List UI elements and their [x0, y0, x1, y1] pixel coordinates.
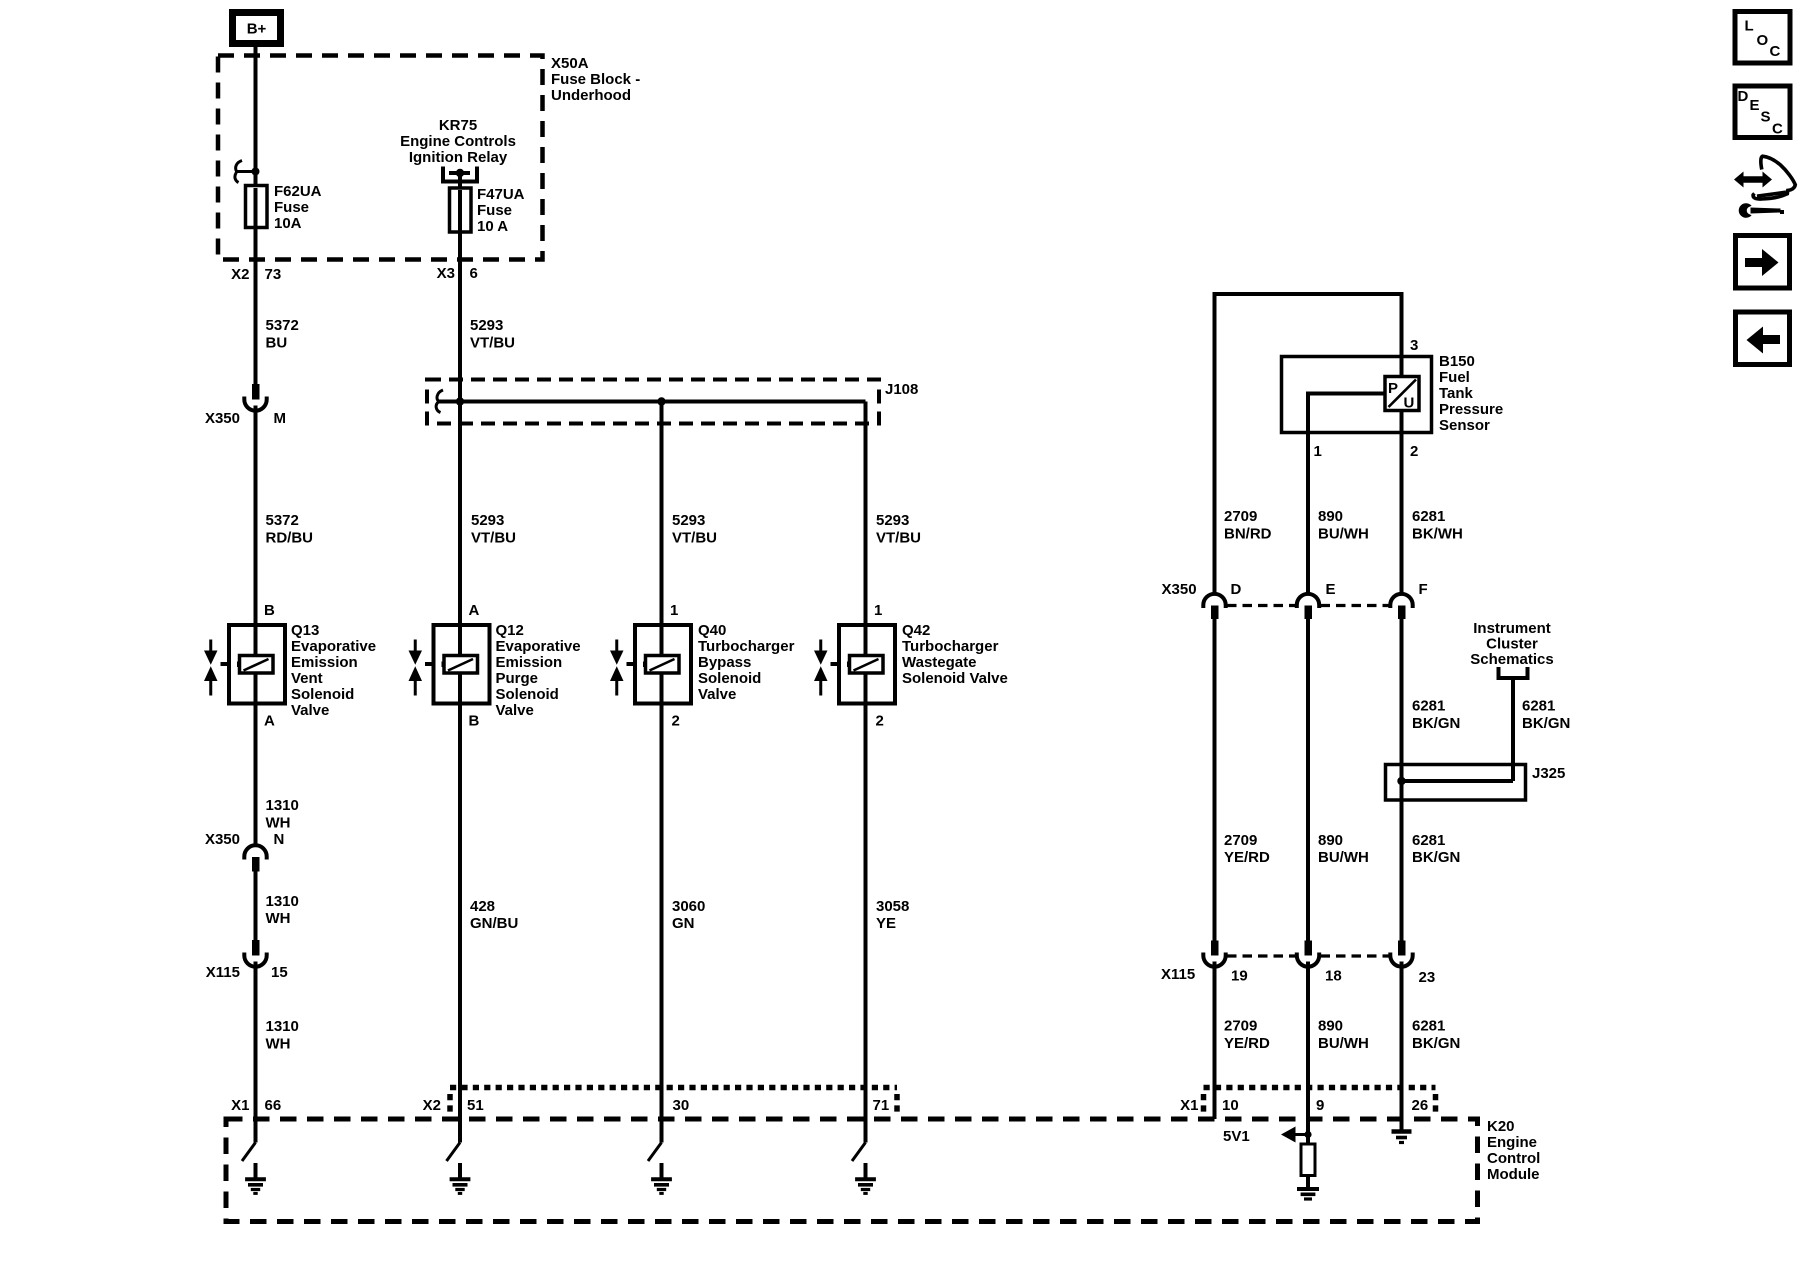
svg-text:18: 18: [1325, 968, 1342, 985]
svg-text:Q13: Q13: [291, 622, 319, 639]
ground under resistor: [1297, 1176, 1319, 1200]
splice bus wire J108: [439, 400, 866, 404]
ground at ECM pin 66: [245, 1163, 266, 1193]
svg-text:GN: GN: [672, 915, 695, 932]
svg-text:6281: 6281: [1412, 508, 1445, 525]
B+ power terminal: [233, 13, 281, 44]
label Q42 Turbocharger Wastegate Solenoid Valve: [902, 622, 1008, 687]
wire Q42 to ECM pin 71: [864, 704, 868, 1143]
wire top horizontal B150 feed: [1215, 294, 1402, 296]
svg-text:1310: 1310: [266, 1018, 299, 1035]
svg-text:9: 9: [1316, 1097, 1324, 1114]
svg-text:GN/BU: GN/BU: [470, 915, 518, 932]
svg-text:6281: 6281: [1412, 698, 1445, 715]
svg-text:890: 890: [1318, 832, 1343, 849]
label X50A Fuse Block - Underhood: [551, 55, 640, 104]
pin label X2 51: [423, 1097, 484, 1114]
wire to sensor pin 3: [1400, 294, 1404, 378]
wire label 1310 WH (lower): [266, 1018, 299, 1053]
svg-text:2709: 2709: [1224, 508, 1257, 525]
wire fuse F47UA to J108: [458, 230, 462, 403]
pin label X3 6: [437, 265, 478, 282]
dashed connector link D-E: [1227, 604, 1296, 607]
wire label 5293 VT/BU (Q40): [672, 512, 717, 547]
svg-text:X350: X350: [205, 831, 240, 848]
svg-text:10: 10: [1222, 1097, 1239, 1114]
svg-text:3: 3: [1410, 337, 1418, 354]
svg-text:10 A: 10 A: [477, 218, 508, 235]
svg-text:26: 26: [1412, 1097, 1429, 1114]
svg-text:71: 71: [873, 1097, 890, 1114]
svg-text:Engine: Engine: [1487, 1134, 1537, 1151]
svg-text:30: 30: [673, 1097, 690, 1114]
svg-text:E: E: [1326, 581, 1336, 598]
connector X115 15: [244, 940, 266, 967]
wire label 890 BU/WH (mid): [1318, 832, 1369, 866]
svg-text:2: 2: [1410, 443, 1418, 460]
svg-text:Fuel: Fuel: [1439, 369, 1470, 386]
svg-text:B+: B+: [247, 21, 267, 38]
svg-text:VT/BU: VT/BU: [876, 530, 921, 547]
wire label 6281 BK/GN (upper right): [1522, 698, 1570, 733]
wire label 6281 BK/GN (upper left): [1412, 698, 1460, 733]
wire X350 M to solenoid Q13: [254, 406, 258, 628]
wire X350 N to X115: [254, 870, 258, 940]
wire X115 18 to ECM pin 9: [1306, 962, 1310, 1145]
resistor inside ECM pin 9: [1301, 1144, 1315, 1176]
svg-text:Schematics: Schematics: [1470, 651, 1553, 668]
svg-text:C: C: [1772, 121, 1783, 138]
svg-text:F47UA: F47UA: [477, 186, 525, 203]
svg-text:Fuse: Fuse: [477, 202, 512, 219]
wire label 6281 BK/GN (mid): [1412, 832, 1460, 866]
wire label 3058 YE: [876, 898, 909, 932]
ECM driver switch pin 51: [447, 1143, 461, 1162]
svg-text:5372: 5372: [266, 512, 299, 529]
svg-text:Valve: Valve: [291, 702, 329, 719]
svg-text:Solenoid: Solenoid: [698, 670, 761, 687]
wire label 2709 YE/RD (lower): [1224, 1018, 1270, 1053]
label F62UA Fuse 10A: [274, 183, 322, 232]
wire Q13 to connector X350 N: [254, 704, 258, 846]
svg-text:D: D: [1738, 88, 1749, 105]
svg-text:J325: J325: [1532, 765, 1565, 782]
pin label X2 73: [231, 266, 281, 283]
svg-text:Q12: Q12: [496, 622, 524, 639]
svg-text:Evaporative: Evaporative: [291, 638, 376, 655]
svg-text:VT/BU: VT/BU: [672, 530, 717, 547]
svg-text:X50A: X50A: [551, 55, 589, 72]
pin label X1 10 (right): [1180, 1097, 1239, 1114]
ECM driver switch pin 30: [648, 1143, 662, 1162]
svg-text:Instrument: Instrument: [1473, 620, 1551, 637]
svg-text:BN/RD: BN/RD: [1224, 526, 1272, 543]
svg-text:5293: 5293: [876, 512, 909, 529]
svg-text:1: 1: [874, 602, 882, 619]
svg-text:428: 428: [470, 898, 495, 915]
svg-text:Ignition Relay: Ignition Relay: [409, 149, 508, 166]
splice J325 box: [1386, 765, 1526, 801]
svg-text:2: 2: [672, 713, 680, 730]
svg-text:WH: WH: [266, 1036, 291, 1053]
connector X350 F: [1390, 594, 1412, 619]
junction dot at F62UA feed: [252, 168, 260, 176]
button LOC: [1735, 12, 1790, 64]
svg-text:5293: 5293: [470, 317, 503, 334]
svg-text:U: U: [1404, 395, 1415, 412]
wire label 5293 VT/BU (Q42): [876, 512, 921, 547]
svg-text:K20: K20: [1487, 1118, 1515, 1135]
wire KR75 to fuse F47UA: [458, 173, 462, 190]
svg-text:15: 15: [271, 964, 288, 981]
svg-text:2709: 2709: [1224, 1018, 1257, 1035]
svg-text:BU/WH: BU/WH: [1318, 1035, 1369, 1052]
label Q12 Evaporative Emission Purge Solenoid Valve: [496, 622, 581, 719]
svg-text:Pressure: Pressure: [1439, 401, 1503, 418]
ECM K20 dashed box: [226, 1119, 1478, 1222]
splice hook J108: [436, 390, 443, 413]
svg-text:X115: X115: [206, 964, 240, 981]
solenoid valve Q13: [204, 625, 285, 704]
label F47UA Fuse 10 A: [477, 186, 525, 235]
svg-text:BU/WH: BU/WH: [1318, 526, 1369, 543]
svg-text:2709: 2709: [1224, 832, 1257, 849]
svg-text:Bypass: Bypass: [698, 654, 751, 671]
svg-text:E: E: [1750, 97, 1760, 114]
button next arrow: [1736, 236, 1790, 289]
label K20 Engine Control Module: [1487, 1118, 1540, 1183]
ground at ECM pin 30: [651, 1163, 672, 1193]
svg-text:O: O: [1757, 32, 1769, 49]
label X350 D E F: [1162, 581, 1428, 598]
wire J108 to solenoid Q12: [458, 402, 462, 628]
svg-text:73: 73: [265, 266, 282, 283]
svg-text:C: C: [1770, 43, 1781, 60]
svg-text:Control: Control: [1487, 1150, 1540, 1167]
svg-text:B: B: [264, 602, 275, 619]
wire X115 19 to ECM pin 10: [1213, 962, 1217, 1120]
svg-text:Underhood: Underhood: [551, 87, 631, 104]
wire 890 BU/WH down to X350 E: [1306, 433, 1310, 595]
svg-text:L: L: [1745, 18, 1754, 35]
wire label 1310 WH (middle): [266, 893, 299, 927]
dashed connector link 18-23: [1321, 954, 1390, 957]
svg-text:BU/WH: BU/WH: [1318, 849, 1369, 866]
svg-text:M: M: [274, 410, 287, 427]
ECM driver switch pin 66: [242, 1143, 256, 1162]
svg-text:1310: 1310: [266, 797, 299, 814]
svg-text:Emission: Emission: [291, 654, 358, 671]
svg-text:Valve: Valve: [496, 702, 534, 719]
wire J108 to solenoid Q42: [864, 402, 868, 628]
connector X350 D: [1203, 594, 1225, 619]
svg-text:X1: X1: [231, 1097, 249, 1114]
connector X115 19: [1203, 941, 1225, 967]
wire label 5372 BU: [266, 317, 299, 352]
svg-text:Q40: Q40: [698, 622, 726, 639]
svg-text:BK/GN: BK/GN: [1412, 715, 1460, 732]
wire Instrument Cluster to J325: [1511, 678, 1515, 781]
wire J108 to solenoid Q40: [660, 402, 664, 628]
svg-text:X350: X350: [1162, 581, 1197, 598]
ECM driver switch pin 71: [852, 1143, 866, 1162]
wire label 2709 BN/RD: [1224, 508, 1272, 543]
junction dot J108 at wire 5293 Q40: [657, 397, 665, 405]
wire label 890 BU/WH: [1318, 508, 1369, 543]
svg-text:WH: WH: [266, 910, 291, 927]
icon car with arrow and wrench: [1734, 156, 1795, 218]
button back arrow: [1736, 312, 1790, 365]
svg-text:1: 1: [670, 602, 678, 619]
relay contact hook at F62UA feed: [235, 161, 256, 183]
connector X350 N: [244, 845, 266, 871]
svg-text:Evaporative: Evaporative: [496, 638, 581, 655]
svg-text:5293: 5293: [471, 512, 504, 529]
dashed connector link E-F: [1321, 604, 1390, 607]
wire label 1310 WH (upper): [266, 797, 299, 832]
svg-text:1310: 1310: [266, 893, 299, 910]
wire X115 23 to ECM pin 26: [1400, 962, 1404, 1130]
relay KR75 label: [400, 117, 516, 166]
svg-text:5293: 5293: [672, 512, 705, 529]
svg-text:Cluster: Cluster: [1486, 636, 1538, 653]
wire X350 D to X115 19: [1213, 619, 1217, 941]
wire fuse F62UA to connector X350 M: [254, 226, 258, 385]
wire X350 E to X115 18: [1306, 619, 1310, 941]
svg-text:X350: X350: [205, 410, 240, 427]
svg-text:F: F: [1419, 581, 1428, 598]
wire label 5372 RD/BU: [266, 512, 314, 547]
solenoid valve Q42: [814, 625, 895, 704]
svg-text:66: 66: [265, 1097, 282, 1114]
svg-text:19: 19: [1231, 968, 1248, 985]
svg-text:23: 23: [1419, 969, 1436, 986]
svg-text:BK/GN: BK/GN: [1412, 849, 1460, 866]
svg-text:3058: 3058: [876, 898, 909, 915]
svg-text:3060: 3060: [672, 898, 705, 915]
splice bus wire J325: [1402, 779, 1514, 783]
svg-text:Fuse: Fuse: [274, 199, 309, 216]
relay KR75 contact bracket: [443, 167, 477, 182]
button DESC: [1735, 86, 1790, 138]
svg-text:51: 51: [467, 1097, 484, 1114]
sensor B150 box: [1282, 357, 1432, 433]
svg-text:Emission: Emission: [496, 654, 563, 671]
svg-text:Tank: Tank: [1439, 385, 1474, 402]
svg-text:1: 1: [1314, 443, 1322, 460]
junction dot J325: [1397, 777, 1405, 785]
svg-text:Solenoid: Solenoid: [496, 686, 559, 703]
svg-text:Solenoid Valve: Solenoid Valve: [902, 670, 1008, 687]
svg-text:Turbocharger: Turbocharger: [698, 638, 795, 655]
svg-text:YE/RD: YE/RD: [1224, 1035, 1270, 1052]
fuse F47UA: [450, 188, 472, 232]
label X350 M: [205, 410, 286, 427]
svg-text:VT/BU: VT/BU: [471, 530, 516, 547]
connector X350 M: [244, 384, 266, 411]
svg-text:X3: X3: [437, 265, 455, 282]
svg-text:890: 890: [1318, 1018, 1343, 1035]
splice J108 dashed box: [427, 380, 879, 424]
label Q13 Evaporative Emission Vent Solenoid Valve: [291, 622, 376, 719]
label X350 N: [205, 831, 284, 848]
connector X350 E: [1297, 594, 1319, 619]
svg-text:5V1: 5V1: [1223, 1128, 1250, 1145]
ground at ECM pin 51: [450, 1163, 471, 1193]
wire 2709 BN/RD down to X350 D: [1213, 294, 1217, 595]
ground at ECM pin 26: [1392, 1132, 1412, 1143]
wire Q12 to ECM pin 51: [458, 704, 462, 1143]
svg-text:RD/BU: RD/BU: [266, 530, 314, 547]
wire 6281 BK/WH down to X350 F: [1400, 433, 1404, 595]
svg-text:Module: Module: [1487, 1166, 1540, 1183]
solenoid valve Q12: [409, 625, 490, 704]
svg-text:YE/RD: YE/RD: [1224, 849, 1270, 866]
svg-text:Wastegate: Wastegate: [902, 654, 976, 671]
connector X2 dotted bracket: [450, 1088, 897, 1113]
wire label 6281 BK/WH: [1412, 508, 1463, 543]
label X115 15: [206, 964, 288, 981]
svg-text:6281: 6281: [1412, 1018, 1445, 1035]
svg-text:Valve: Valve: [698, 686, 736, 703]
fuse block X50A dashed box: [218, 56, 543, 260]
svg-text:KR75: KR75: [439, 117, 477, 134]
wire label 3060 GN: [672, 898, 705, 932]
svg-text:Sensor: Sensor: [1439, 417, 1490, 434]
svg-text:BU: BU: [266, 335, 288, 352]
wire X350 F to J325: [1400, 619, 1404, 941]
svg-text:Engine Controls: Engine Controls: [400, 133, 516, 150]
wire X115 to ECM pin 66: [254, 962, 258, 1143]
svg-text:A: A: [469, 602, 480, 619]
svg-text:Solenoid: Solenoid: [291, 686, 354, 703]
svg-text:6281: 6281: [1412, 832, 1445, 849]
svg-text:Turbocharger: Turbocharger: [902, 638, 999, 655]
svg-text:2: 2: [876, 713, 884, 730]
svg-text:X2: X2: [231, 266, 249, 283]
ground at ECM pin 71: [855, 1163, 876, 1193]
svg-text:BK/GN: BK/GN: [1412, 1035, 1460, 1052]
svg-text:6: 6: [470, 265, 478, 282]
svg-text:N: N: [274, 831, 285, 848]
svg-text:5372: 5372: [266, 317, 299, 334]
label Instrument Cluster Schematics: [1470, 620, 1553, 668]
svg-text:X115: X115: [1161, 966, 1195, 983]
wire label 2709 YE/RD (mid): [1224, 832, 1270, 866]
connector X115 18: [1297, 941, 1319, 967]
svg-text:Fuse Block -: Fuse Block -: [551, 71, 640, 88]
wire label 428 GN/BU: [470, 898, 518, 932]
label B150 Fuel Tank Pressure Sensor: [1439, 353, 1503, 434]
solenoid valve Q40: [610, 625, 691, 704]
label X115 19 18 23: [1161, 966, 1435, 986]
svg-text:BK/GN: BK/GN: [1522, 715, 1570, 732]
pin label X1 66: [231, 1097, 281, 1114]
sensor element P/U: [1385, 377, 1419, 412]
svg-text:Purge: Purge: [496, 670, 539, 687]
svg-text:6281: 6281: [1522, 698, 1555, 715]
wire sensor pin 2 down: [1400, 411, 1404, 433]
svg-text:Q42: Q42: [902, 622, 930, 639]
svg-text:J108: J108: [885, 381, 918, 398]
connector X115 23: [1390, 941, 1412, 967]
svg-text:X1: X1: [1180, 1097, 1198, 1114]
wire Q40 to ECM pin 30: [660, 704, 664, 1143]
5V reference arrow at ECM pin 9: [1281, 1127, 1312, 1143]
svg-text:B150: B150: [1439, 353, 1475, 370]
svg-text:YE: YE: [876, 915, 896, 932]
wire label 5293 VT/BU (Q12): [471, 512, 516, 547]
svg-text:BK/WH: BK/WH: [1412, 526, 1463, 543]
svg-text:A: A: [264, 713, 275, 730]
svg-text:B: B: [469, 713, 480, 730]
svg-text:D: D: [1231, 581, 1242, 598]
label Q40 Turbocharger Bypass Solenoid Valve: [698, 622, 795, 703]
fuse F62UA: [246, 186, 268, 228]
svg-text:S: S: [1761, 109, 1771, 126]
wire label 6281 BK/GN (lower): [1412, 1018, 1460, 1053]
svg-text:F62UA: F62UA: [274, 183, 322, 200]
bracket under Instrument Cluster Schematics: [1499, 667, 1528, 678]
svg-text:X2: X2: [423, 1097, 441, 1114]
wire label 5293 VT/BU (top, Q12 branch): [470, 317, 515, 352]
svg-text:Vent: Vent: [291, 670, 323, 687]
connector X1 dotted bracket (right): [1204, 1088, 1436, 1113]
svg-text:890: 890: [1318, 508, 1343, 525]
dashed connector link 19-18: [1227, 954, 1296, 957]
svg-text:P: P: [1388, 380, 1398, 397]
svg-text:WH: WH: [266, 815, 291, 832]
wire label 890 BU/WH (lower): [1318, 1018, 1369, 1053]
svg-text:VT/BU: VT/BU: [470, 335, 515, 352]
svg-text:10A: 10A: [274, 215, 302, 232]
junction dot J108 at wire 5293 Q12: [456, 397, 464, 405]
wire B+ to fuse F62UA: [254, 43, 258, 187]
wire sensor internal pin 1: [1308, 394, 1385, 433]
